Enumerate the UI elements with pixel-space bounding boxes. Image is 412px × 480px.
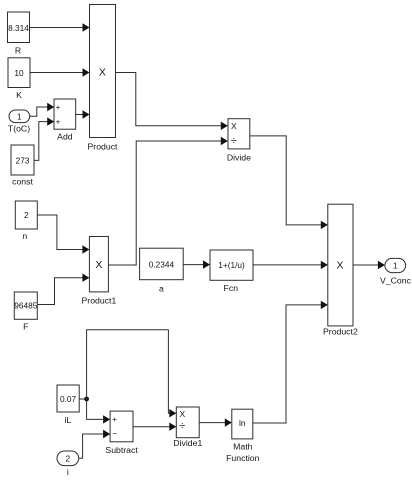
inport 2 i [57, 451, 79, 477]
math function block ln [226, 409, 259, 463]
function block Fcn 1+(1/u) [210, 250, 253, 293]
svg-text:const: const [12, 177, 33, 187]
junction dot [84, 397, 89, 402]
svg-text:V_Conc: V_Conc [380, 276, 412, 286]
constant iL value 0.07 [57, 385, 79, 425]
wire Divide1 to Math Function [199, 418, 232, 426]
svg-text:X: X [99, 67, 106, 79]
divide block Divide [227, 119, 251, 163]
svg-text:F: F [23, 321, 28, 331]
svg-text:8.314: 8.314 [8, 23, 29, 33]
wire Math Function to Product2 input3 [253, 301, 328, 423]
svg-text:Add: Add [57, 132, 73, 142]
svg-text:2: 2 [65, 453, 70, 463]
product block Product1 [82, 237, 117, 306]
svg-text:÷: ÷ [179, 420, 185, 432]
svg-text:X: X [95, 259, 102, 271]
svg-text:1+(1/u): 1+(1/u) [218, 260, 245, 270]
wire junction over top to Divide1 input1 [87, 330, 177, 418]
svg-text:Product1: Product1 [82, 296, 117, 306]
wire junction to Subtract input1 [87, 399, 111, 424]
wire K to Product input2 [30, 68, 90, 76]
svg-text:X: X [231, 121, 237, 131]
wire Divide to Product2 input1 [250, 136, 328, 229]
wire a to Fcn input [183, 260, 210, 268]
svg-text:+: + [56, 117, 61, 126]
svg-text:K: K [16, 90, 22, 100]
svg-text:n: n [22, 231, 27, 241]
wire R to Product input1 [30, 23, 90, 31]
wire F to Product1 input2 [38, 274, 90, 305]
svg-text:Divide: Divide [227, 153, 251, 163]
svg-text:X: X [179, 409, 185, 419]
wire i to Subtract input2 [79, 430, 110, 458]
sum block Subtract [105, 411, 138, 455]
wire Subtract to Divide1 input2 [133, 423, 176, 431]
svg-text:−: − [112, 429, 117, 438]
wire iL to junction [79, 398, 86, 400]
svg-text:R: R [15, 46, 21, 56]
svg-text:2: 2 [24, 210, 29, 220]
svg-text:ln: ln [239, 418, 246, 428]
product block Product [88, 5, 119, 152]
svg-text:+: + [112, 415, 117, 424]
svg-text:0.07: 0.07 [60, 394, 77, 404]
wire T(oC) to Add input1 [30, 103, 55, 117]
inport 1 T(oC) [8, 110, 30, 134]
wire const 273 to Add input2 [34, 117, 54, 160]
svg-text:Product2: Product2 [323, 326, 358, 336]
wire Product1 to Divide input2 [108, 137, 227, 265]
svg-text:1: 1 [393, 261, 398, 271]
constant a value 0.2344 [140, 248, 184, 293]
wire Product2 to V_Conc [353, 261, 385, 269]
wire n to Product1 input1 [38, 215, 90, 254]
svg-text:Function: Function [226, 453, 259, 463]
svg-text:iL: iL [65, 415, 72, 425]
product block Product2 [323, 204, 358, 336]
constant F value 96485 [14, 292, 37, 331]
svg-text:÷: ÷ [231, 135, 237, 147]
constant n value 2 [15, 201, 37, 241]
constant K value 10 [8, 58, 30, 100]
svg-text:X: X [336, 259, 343, 271]
outport 1 V_Conc [380, 258, 412, 285]
svg-text:1: 1 [17, 112, 22, 122]
svg-text:Product: Product [88, 142, 119, 152]
svg-text:i: i [67, 467, 69, 477]
svg-text:0.2344: 0.2344 [149, 259, 175, 269]
svg-text:+: + [56, 103, 61, 112]
svg-text:T(oC): T(oC) [8, 124, 30, 134]
wire Fcn to Product2 input2 [253, 261, 328, 269]
constant const value 273 [11, 145, 34, 187]
wire Add to Product input3 [76, 110, 90, 118]
constant R value 8.314 [8, 12, 30, 56]
svg-text:10: 10 [14, 68, 24, 78]
svg-text:Divide1: Divide1 [173, 438, 202, 448]
divide block Divide1 [173, 407, 202, 448]
wire Product to Divide input1 [116, 73, 228, 131]
svg-text:Math: Math [233, 441, 252, 451]
sum block Add [54, 99, 76, 142]
svg-text:273: 273 [16, 156, 30, 166]
svg-text:Subtract: Subtract [105, 445, 138, 455]
svg-text:Fcn: Fcn [224, 283, 239, 293]
svg-text:a: a [159, 283, 164, 293]
svg-text:96485: 96485 [14, 301, 37, 311]
